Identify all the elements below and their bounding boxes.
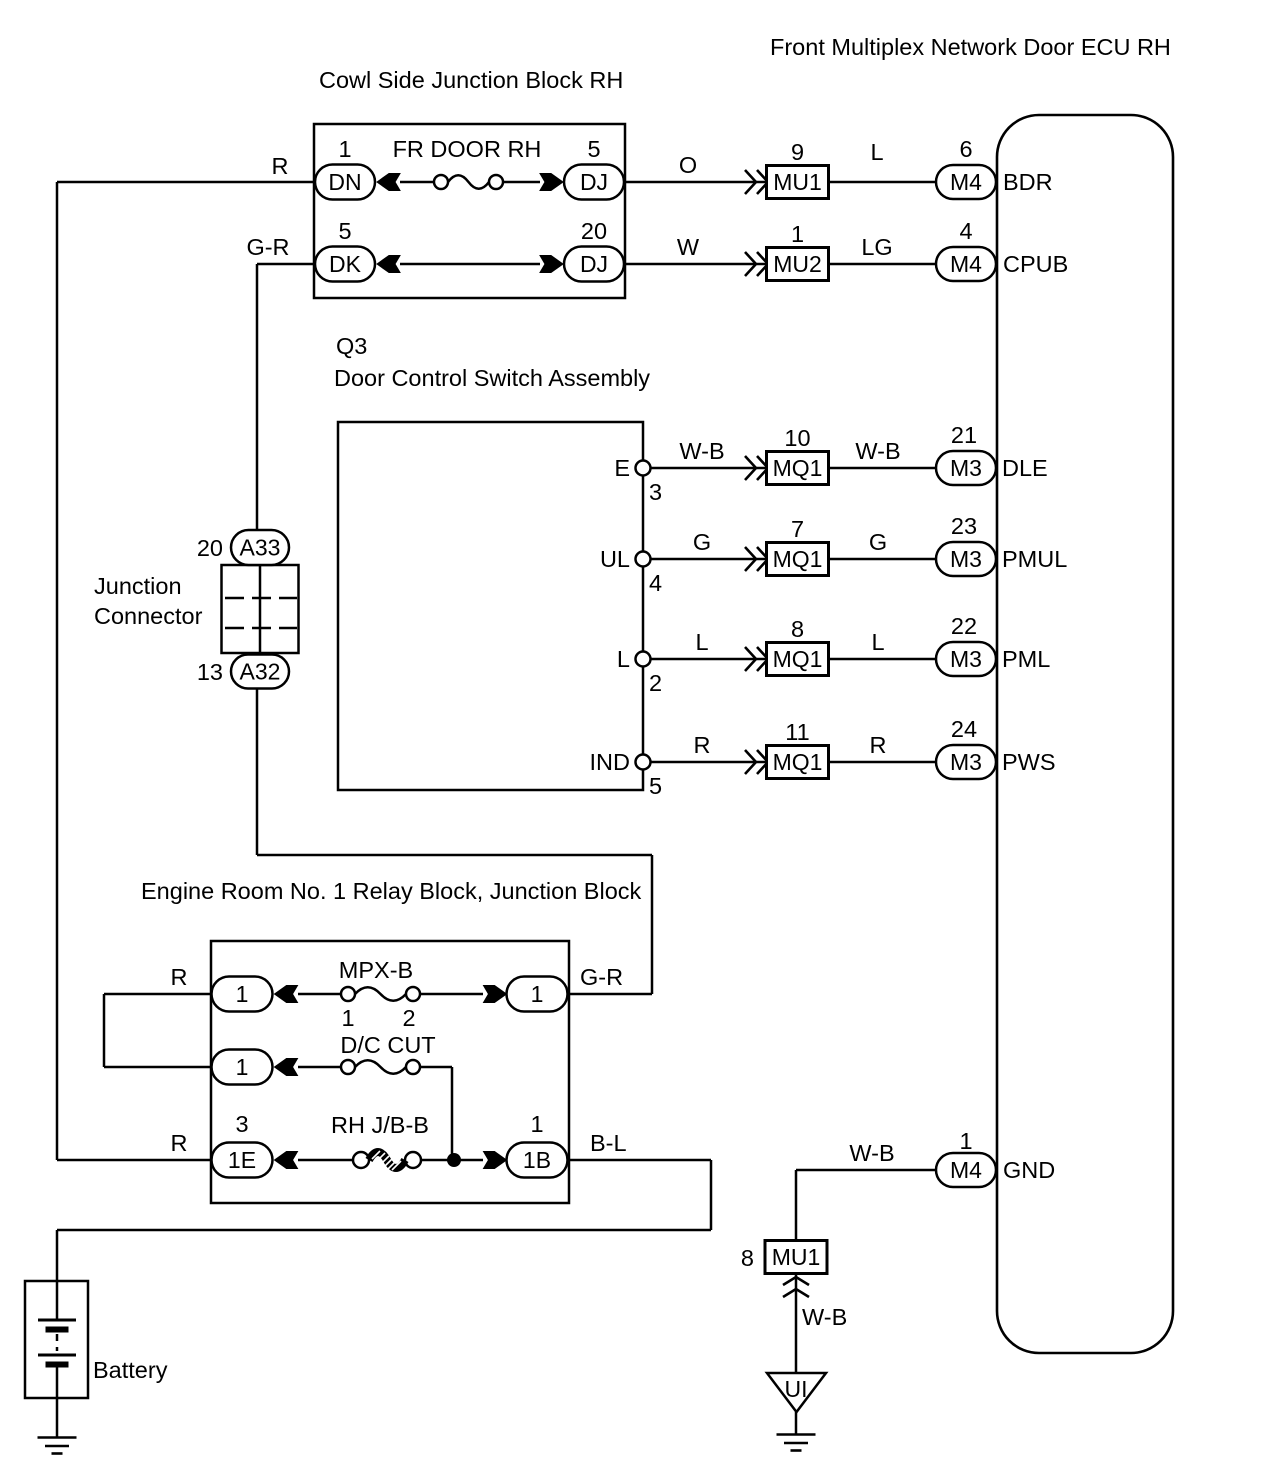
wire: battery lead down bbox=[56, 1230, 59, 1320]
connector M3 pin 22 (PML) bbox=[936, 642, 996, 676]
wire: fuse FR DOOR RH left lead bbox=[400, 181, 434, 184]
svg-text:1E: 1E bbox=[228, 1147, 256, 1173]
wire G-R: DK to rail bbox=[257, 263, 316, 266]
terminal E of Q3 bbox=[636, 461, 651, 476]
svg-text:L: L bbox=[617, 646, 630, 672]
svg-text:D/C CUT: D/C CUT bbox=[340, 1032, 435, 1058]
svg-text:CPUB: CPUB bbox=[1003, 251, 1068, 277]
svg-text:M3: M3 bbox=[950, 646, 982, 672]
svg-text:W-B: W-B bbox=[849, 1140, 894, 1166]
wire crossing marks (vertical) bbox=[783, 1277, 809, 1297]
svg-text:Engine Room No. 1 Relay Block,: Engine Room No. 1 Relay Block, Junction … bbox=[141, 878, 642, 904]
wire G-R: MPX-B to rail bbox=[568, 993, 653, 996]
arrow into terminal 1 bbox=[275, 986, 298, 1003]
svg-text:2: 2 bbox=[649, 670, 662, 696]
terminal L of Q3 bbox=[636, 652, 651, 667]
svg-text:1: 1 bbox=[959, 1128, 972, 1154]
svg-text:1: 1 bbox=[341, 1005, 354, 1031]
splice MU1 (pin 8) bbox=[765, 1241, 827, 1274]
battery cell plates bbox=[38, 1320, 76, 1365]
wire R: battery rail to DN bbox=[57, 181, 316, 184]
connector M3 pin 23 (PMUL) bbox=[936, 542, 996, 576]
wire: D/C CUT left lead bbox=[298, 1066, 341, 1069]
svg-text:M4: M4 bbox=[950, 169, 982, 195]
svg-text:R: R bbox=[870, 732, 887, 758]
svg-text:GND: GND bbox=[1003, 1157, 1055, 1183]
connector M3 pin 21 (DLE) bbox=[936, 451, 996, 485]
svg-text:E: E bbox=[614, 455, 630, 481]
ground point UI bbox=[767, 1373, 826, 1412]
splice MQ1 (pin 8) bbox=[767, 643, 829, 676]
wire: battery negative lead bbox=[56, 1366, 59, 1437]
svg-text:Junction: Junction bbox=[94, 573, 182, 599]
svg-text:5: 5 bbox=[587, 136, 600, 162]
connector DN (Cowl block, pin 1) bbox=[315, 165, 375, 200]
arrow into terminal 1 (D/C CUT) bbox=[275, 1059, 298, 1076]
splice MQ1 (pin 7) bbox=[767, 543, 829, 576]
junction dot bbox=[447, 1153, 461, 1167]
svg-text:11: 11 bbox=[785, 719, 809, 745]
terminal 1 (MPX-B left) bbox=[212, 977, 273, 1012]
svg-text:Cowl Side Junction Block RH: Cowl Side Junction Block RH bbox=[319, 67, 623, 93]
wire crossing marks bbox=[745, 456, 768, 480]
svg-text:MU2: MU2 bbox=[773, 251, 822, 277]
wire crossing marks bbox=[745, 547, 768, 571]
wire: UI to ground bbox=[795, 1412, 798, 1434]
wire: RH J/B-B right lead bbox=[420, 1159, 483, 1162]
svg-text:7: 7 bbox=[791, 516, 804, 542]
svg-text:24: 24 bbox=[951, 716, 977, 742]
wire G: Q3 UL to MQ1 bbox=[650, 558, 766, 561]
wire R: Q3 IND to MQ1 bbox=[650, 761, 766, 764]
svg-text:23: 23 bbox=[951, 513, 977, 539]
wire crossing marks bbox=[745, 170, 768, 194]
connector DK (Cowl block, pin 5) bbox=[315, 247, 375, 282]
terminal 1B (pin 1) bbox=[507, 1143, 568, 1178]
terminal IND of Q3 bbox=[636, 755, 651, 770]
terminal UL of Q3 bbox=[636, 552, 651, 567]
svg-text:Q3: Q3 bbox=[336, 333, 367, 359]
svg-text:DN: DN bbox=[328, 169, 361, 195]
svg-text:PML: PML bbox=[1002, 646, 1050, 672]
svg-text:4: 4 bbox=[649, 570, 662, 596]
wire: DK to DJ internal link bbox=[400, 263, 540, 266]
arrow into 1B bbox=[484, 1152, 507, 1169]
svg-text:3: 3 bbox=[649, 479, 662, 505]
connector DJ (Cowl block, pin 20) bbox=[564, 247, 624, 282]
splice MQ1 (pin 10) bbox=[767, 452, 829, 485]
svg-text:R: R bbox=[694, 732, 711, 758]
arrow into terminal 1 (right) bbox=[484, 986, 507, 1003]
svg-text:M3: M3 bbox=[950, 455, 982, 481]
wire L: MU1 to M4 bbox=[829, 181, 936, 184]
wire R: loop to MPX-B input bbox=[104, 993, 212, 996]
ECU: Front Multiplex Network Door ECU RH body bbox=[997, 115, 1173, 1353]
wire: down to MU1 bbox=[795, 1170, 798, 1240]
svg-text:8: 8 bbox=[791, 616, 804, 642]
wire L: Q3 L to MQ1 bbox=[650, 658, 766, 661]
wire: B-L down bbox=[710, 1160, 713, 1230]
svg-text:M4: M4 bbox=[950, 251, 982, 277]
arrow into DJ (row 2) bbox=[540, 256, 563, 273]
wire R: MQ1 to M3 bbox=[829, 761, 936, 764]
svg-text:IND: IND bbox=[590, 749, 630, 775]
splice MU2 (pin 1) bbox=[767, 248, 829, 281]
Cowl Side Junction Block RH box bbox=[314, 124, 625, 298]
wire: A32 down bbox=[256, 689, 259, 855]
svg-text:L: L bbox=[871, 629, 884, 655]
connector M3 pin 24 (PWS) bbox=[936, 745, 996, 779]
svg-text:MQ1: MQ1 bbox=[773, 546, 823, 572]
wire W-B: Q3 E to MQ1 bbox=[650, 467, 766, 470]
fusible link RH J/B-B bbox=[353, 1151, 421, 1170]
wire O: DJ to MU1 bbox=[624, 181, 766, 184]
svg-text:R: R bbox=[171, 1130, 188, 1156]
svg-text:Door Control Switch Assembly: Door Control Switch Assembly bbox=[334, 365, 650, 391]
battery box bbox=[25, 1281, 88, 1398]
svg-text:L: L bbox=[870, 139, 883, 165]
svg-text:6: 6 bbox=[959, 136, 972, 162]
wire R: rail to 1E bbox=[57, 1159, 212, 1162]
junction connector box bbox=[222, 565, 299, 653]
terminal 1 (D/C CUT) bbox=[212, 1050, 273, 1085]
svg-text:1: 1 bbox=[338, 136, 351, 162]
svg-text:MQ1: MQ1 bbox=[773, 749, 823, 775]
wire B-L: 1B to battery loop bbox=[568, 1159, 712, 1162]
arrow into DN bbox=[377, 174, 400, 191]
svg-text:UL: UL bbox=[600, 546, 630, 572]
wire: junction connector center bbox=[259, 565, 262, 653]
svg-text:G-R: G-R bbox=[580, 964, 623, 990]
wire crossing marks bbox=[745, 750, 768, 774]
svg-text:DJ: DJ bbox=[580, 251, 608, 277]
svg-text:22: 22 bbox=[951, 613, 977, 639]
svg-text:20: 20 bbox=[197, 535, 223, 561]
wire: battery positive run bbox=[57, 1229, 711, 1232]
svg-text:5: 5 bbox=[649, 773, 662, 799]
svg-text:13: 13 bbox=[197, 659, 223, 685]
wire: down to MPX-B output bbox=[651, 855, 654, 994]
wire: RH J/B-B left lead bbox=[298, 1159, 354, 1162]
svg-text:2: 2 bbox=[402, 1005, 415, 1031]
svg-text:MPX-B: MPX-B bbox=[339, 957, 413, 983]
svg-text:B-L: B-L bbox=[590, 1130, 627, 1156]
wire crossing marks bbox=[745, 647, 768, 671]
splice MQ1 (pin 11) bbox=[767, 746, 829, 779]
svg-text:Battery: Battery bbox=[93, 1357, 168, 1383]
arrow into DJ bbox=[540, 174, 563, 191]
svg-text:PWS: PWS bbox=[1002, 749, 1056, 775]
svg-text:Connector: Connector bbox=[94, 603, 203, 629]
svg-text:A33: A33 bbox=[240, 535, 281, 561]
wire: D/C CUT right lead bbox=[420, 1066, 452, 1069]
svg-text:Front Multiplex Network Door E: Front Multiplex Network Door ECU RH bbox=[770, 34, 1171, 60]
svg-text:W: W bbox=[677, 234, 700, 260]
connector DJ (Cowl block, pin 5) bbox=[564, 165, 624, 200]
svg-text:M4: M4 bbox=[950, 1157, 982, 1183]
svg-text:MQ1: MQ1 bbox=[773, 455, 823, 481]
wire: G-R rail down to junction connector bbox=[256, 264, 259, 531]
wire: loop down bbox=[103, 994, 106, 1067]
svg-text:R: R bbox=[171, 964, 188, 990]
wire: across to engine room block bbox=[257, 854, 652, 857]
connector M4 pin 6 (BDR) bbox=[936, 165, 996, 199]
svg-text:G: G bbox=[693, 529, 711, 555]
fuse FR DOOR RH bbox=[434, 175, 503, 189]
svg-text:BDR: BDR bbox=[1003, 169, 1053, 195]
svg-text:3: 3 bbox=[235, 1111, 248, 1137]
svg-text:1: 1 bbox=[236, 1054, 249, 1080]
wire: fuse FR DOOR RH right lead bbox=[503, 181, 540, 184]
svg-text:9: 9 bbox=[791, 139, 804, 165]
connector A33 (pin 20) bbox=[231, 530, 289, 565]
svg-text:LG: LG bbox=[861, 234, 892, 260]
connector A32 (pin 13) bbox=[231, 655, 289, 689]
wire W-B: MU1 to ground point UI bbox=[795, 1274, 798, 1373]
wire: MPX-B fuse left lead bbox=[298, 993, 341, 996]
svg-text:1: 1 bbox=[791, 221, 804, 247]
svg-text:PMUL: PMUL bbox=[1002, 546, 1067, 572]
wire W-B: MQ1 to M3 bbox=[829, 467, 936, 470]
svg-text:MU1: MU1 bbox=[773, 169, 822, 195]
svg-text:MU1: MU1 bbox=[772, 1244, 821, 1270]
svg-text:8: 8 bbox=[741, 1245, 754, 1271]
svg-text:1: 1 bbox=[530, 1111, 543, 1137]
svg-text:4: 4 bbox=[959, 218, 972, 244]
svg-text:10: 10 bbox=[784, 425, 810, 451]
svg-text:1B: 1B bbox=[523, 1147, 551, 1173]
wire: D/C CUT down to RH J/B-B bbox=[451, 1067, 454, 1160]
svg-text:W-B: W-B bbox=[679, 438, 724, 464]
svg-text:1: 1 bbox=[236, 981, 249, 1007]
wire W: DJ to MU2 bbox=[624, 263, 766, 266]
terminal 1E (pin 3) bbox=[212, 1143, 273, 1178]
svg-text:G-R: G-R bbox=[246, 234, 289, 260]
svg-text:W-B: W-B bbox=[802, 1304, 847, 1330]
terminal 1 (MPX-B right) bbox=[507, 977, 568, 1012]
svg-text:RH J/B-B: RH J/B-B bbox=[331, 1112, 429, 1138]
svg-text:G: G bbox=[869, 529, 887, 555]
splice MU1 (pin 9) bbox=[767, 166, 829, 199]
Q3 Door Control Switch Assembly box bbox=[338, 422, 643, 790]
svg-text:DK: DK bbox=[329, 251, 362, 277]
wire L: MQ1 to M3 bbox=[829, 658, 936, 661]
wire crossing marks bbox=[745, 252, 768, 276]
ground (body) bbox=[777, 1435, 816, 1451]
wire: left R rail vertical bbox=[56, 182, 59, 1160]
fuse D/C CUT bbox=[341, 1060, 420, 1074]
svg-text:FR DOOR RH: FR DOOR RH bbox=[393, 136, 542, 162]
svg-text:MQ1: MQ1 bbox=[773, 646, 823, 672]
wire: MPX-B fuse right lead bbox=[420, 993, 483, 996]
svg-text:A32: A32 bbox=[240, 659, 281, 685]
svg-text:W-B: W-B bbox=[855, 438, 900, 464]
svg-text:DLE: DLE bbox=[1002, 455, 1048, 481]
wire LG: MU2 to M4 bbox=[829, 263, 936, 266]
junction connector dashed circuits bbox=[225, 597, 297, 600]
svg-text:DJ: DJ bbox=[580, 169, 608, 195]
arrow into 1E bbox=[275, 1152, 298, 1169]
svg-text:5: 5 bbox=[338, 218, 351, 244]
arrow into DK bbox=[377, 256, 400, 273]
wire: loop to D/C CUT input bbox=[104, 1066, 212, 1069]
Engine Room No. 1 Relay Block box bbox=[211, 941, 569, 1203]
connector M4 pin 4 (CPUB) bbox=[936, 247, 996, 281]
svg-text:1: 1 bbox=[531, 981, 544, 1007]
ground (battery) bbox=[38, 1438, 77, 1454]
svg-text:M3: M3 bbox=[950, 546, 982, 572]
wire W-B: to M4 GND bbox=[796, 1169, 936, 1172]
svg-text:21: 21 bbox=[951, 422, 977, 448]
svg-text:O: O bbox=[679, 152, 697, 178]
wire G: MQ1 to M3 bbox=[829, 558, 936, 561]
svg-text:20: 20 bbox=[581, 218, 607, 244]
svg-text:UI: UI bbox=[785, 1376, 808, 1402]
svg-text:M3: M3 bbox=[950, 749, 982, 775]
fuse MPX-B bbox=[341, 987, 420, 1001]
svg-text:L: L bbox=[695, 629, 708, 655]
connector M4 pin 1 (GND) bbox=[936, 1153, 996, 1187]
svg-text:R: R bbox=[272, 153, 289, 179]
